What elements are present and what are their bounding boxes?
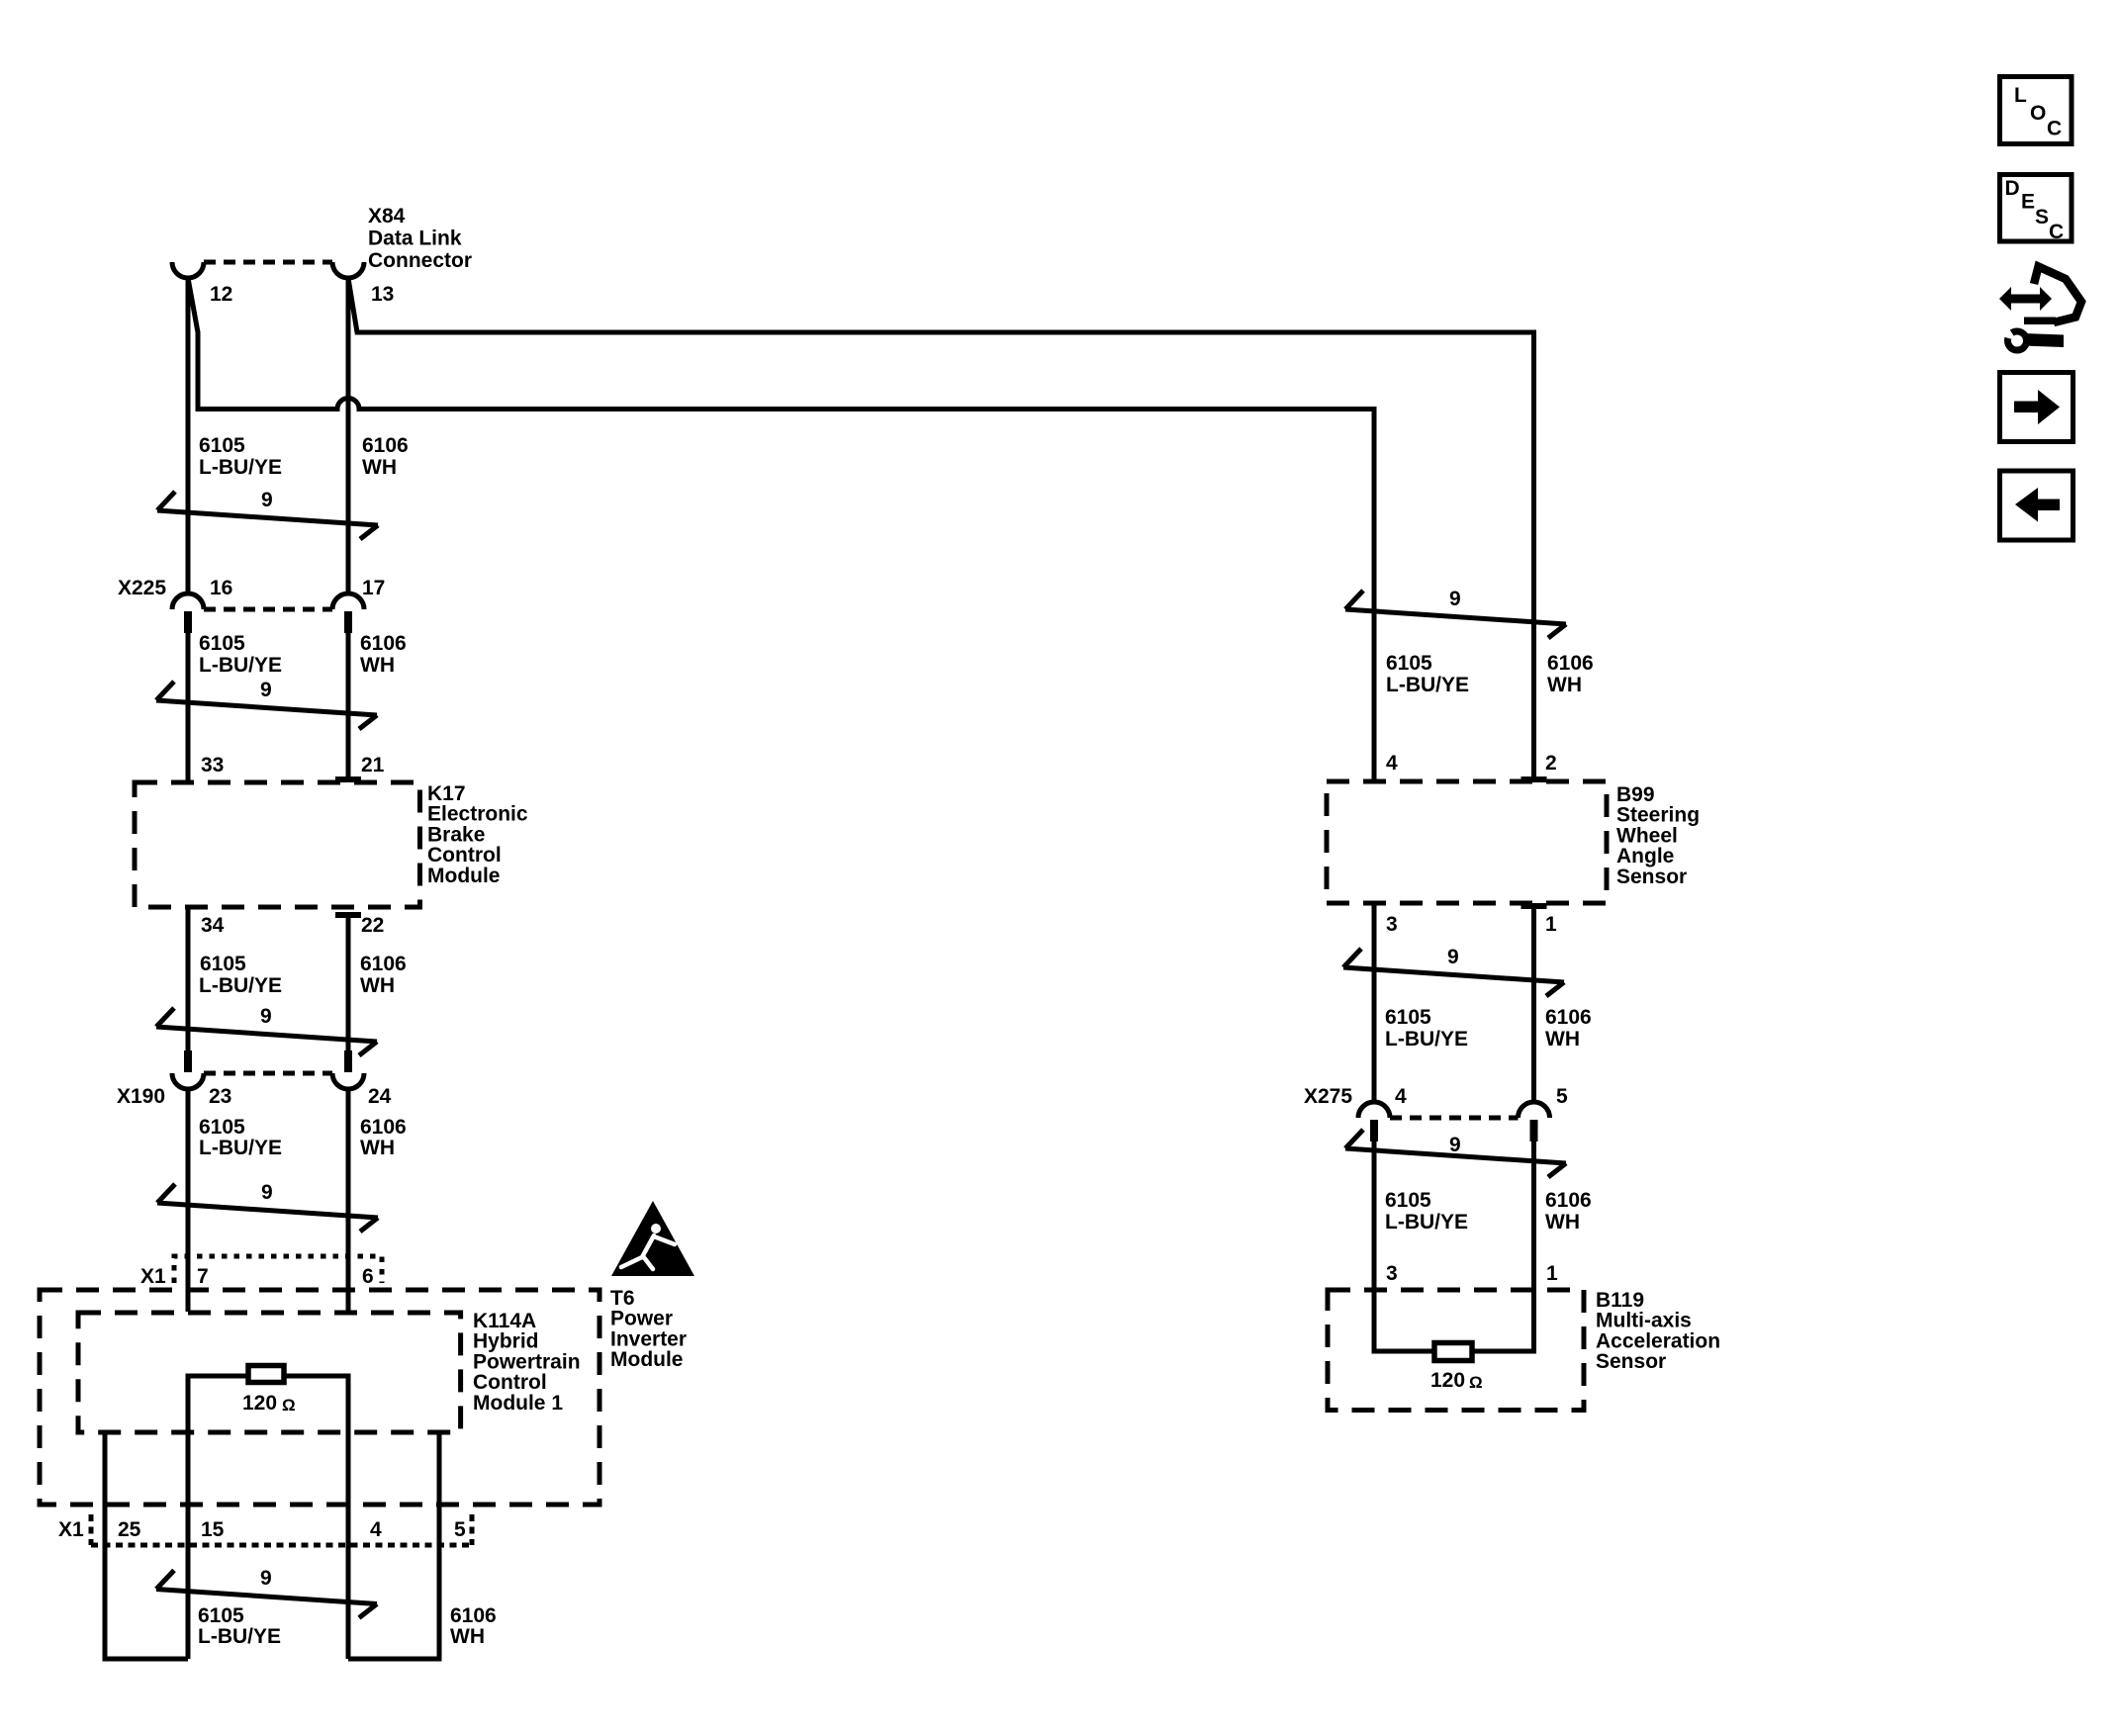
wire 6105 B99 pin 3 to X275 <box>1372 903 1377 1104</box>
wire K114A pin 15 and resistor left lead <box>188 1376 247 1659</box>
svg-text:6105: 6105 <box>1386 652 1432 675</box>
svg-text:Sensor: Sensor <box>1616 866 1687 888</box>
wire 6106 K17 pin 22 to X190 <box>346 915 351 1051</box>
svg-text:Data Link: Data Link <box>368 227 462 249</box>
svg-text:12: 12 <box>210 283 232 306</box>
svg-text:5: 5 <box>1556 1085 1568 1108</box>
connector X84 pin 13 socket <box>332 262 364 278</box>
warning triangle icon <box>611 1201 694 1276</box>
svg-text:Multi-axis: Multi-axis <box>1596 1310 1692 1332</box>
svg-text:6106: 6106 <box>360 953 407 975</box>
svg-text:T6: T6 <box>610 1287 635 1310</box>
svg-text:16: 16 <box>210 577 232 599</box>
connector X190 pin 24 <box>332 1051 364 1089</box>
svg-text:C: C <box>2047 118 2062 140</box>
svg-text:K114A: K114A <box>473 1310 536 1332</box>
svg-text:15: 15 <box>201 1518 225 1541</box>
svg-text:9: 9 <box>1447 946 1459 968</box>
wire label 6105 L-BU/YE (to B99) <box>1386 652 1469 696</box>
wire label 6106 WH (X84-X225) <box>362 434 409 479</box>
wire K114A pin 4 and resistor right lead <box>285 1376 348 1659</box>
svg-text:24: 24 <box>368 1085 392 1108</box>
wire label 6105 L-BU/YE (X190-X1) <box>199 1116 282 1159</box>
wire 6105 K17 pin 34 to X190 <box>186 907 191 1051</box>
module B119 box <box>1328 1290 1584 1411</box>
svg-text:L-BU/YE: L-BU/YE <box>198 1625 281 1648</box>
svg-text:Acceleration: Acceleration <box>1596 1329 1720 1352</box>
wire label 6106 WH (B99-X275) <box>1545 1006 1592 1051</box>
twisted pair marker (X225 to K17) <box>156 679 377 729</box>
svg-text:7: 7 <box>197 1265 209 1288</box>
wire label 6106 WH (X225-K17) <box>360 632 407 677</box>
label K17 Electronic Brake Control Module <box>427 782 528 887</box>
svg-text:6106: 6106 <box>1547 652 1594 675</box>
svg-text:L-BU/YE: L-BU/YE <box>1385 1211 1468 1233</box>
svg-text:6105: 6105 <box>199 434 245 457</box>
svg-text:4: 4 <box>1386 752 1398 775</box>
svg-text:Angle: Angle <box>1616 845 1674 868</box>
svg-text:Connector: Connector <box>368 249 472 272</box>
connector X1 (lower) left stub <box>89 1514 94 1545</box>
wire 6105 X225 to K17 pin 33 <box>186 631 191 782</box>
label B99 Steering Wheel Angle Sensor <box>1616 783 1700 888</box>
svg-text:21: 21 <box>361 754 385 777</box>
wire label 6105 L-BU/YE (X84-X225) <box>199 434 282 479</box>
svg-text:6105: 6105 <box>198 1604 244 1627</box>
svg-text:6105: 6105 <box>200 953 246 975</box>
svg-text:WH: WH <box>360 974 395 997</box>
svg-text:6105: 6105 <box>1385 1006 1431 1029</box>
label 120 ohm (B119) <box>1430 1369 1483 1392</box>
svg-text:6105: 6105 <box>199 632 245 655</box>
wire label 6106 WH (X190-X1) <box>360 1116 407 1159</box>
forward arrow button <box>2000 373 2073 442</box>
svg-text:S: S <box>2035 206 2049 228</box>
svg-text:B99: B99 <box>1616 783 1655 806</box>
svg-text:WH: WH <box>362 456 397 479</box>
wire label 6105 L-BU/YE (B99-X275) <box>1385 1006 1468 1051</box>
wire 6106 X275 to B119 pin 1 <box>1472 1140 1534 1351</box>
svg-text:6: 6 <box>362 1265 374 1288</box>
svg-text:Ω: Ω <box>282 1396 296 1415</box>
twisted pair marker (K17 to X190) <box>156 1005 377 1055</box>
svg-text:X275: X275 <box>1304 1085 1352 1108</box>
twisted pair marker (top to B99) <box>1345 588 1566 638</box>
wire label 6106 WH (X275-B119) <box>1545 1189 1592 1233</box>
svg-text:L-BU/YE: L-BU/YE <box>199 654 282 677</box>
label B119 Multi-axis Acceleration Sensor <box>1596 1289 1720 1373</box>
svg-text:Power: Power <box>610 1308 673 1330</box>
svg-text:WH: WH <box>360 1137 395 1159</box>
svg-text:Module 1: Module 1 <box>473 1392 563 1415</box>
module K114A box <box>78 1313 461 1432</box>
svg-text:O: O <box>2030 102 2046 125</box>
label K114A Hybrid Powertrain Control Module 1 <box>473 1310 581 1415</box>
connector X1 (lower) dotted line <box>91 1543 472 1548</box>
connector X275 pin 5 <box>1519 1102 1550 1142</box>
wire 6105 X275 to B119 pin 3 <box>1374 1140 1434 1351</box>
DESC button <box>2000 175 2073 244</box>
svg-text:Brake: Brake <box>427 823 485 846</box>
svg-text:120: 120 <box>1430 1369 1465 1392</box>
wire 6106 X225 to K17 pin 21 <box>346 631 351 777</box>
LOC button <box>2000 77 2073 144</box>
svg-text:4: 4 <box>1395 1085 1407 1108</box>
svg-text:6106: 6106 <box>362 434 409 457</box>
wire 6105 branch from pin 12 to B99 pin 4 (hop over 6106) <box>188 278 1374 782</box>
wire K114A pin 25 loop <box>105 1434 188 1659</box>
wire label 6106 WH (bottom) <box>450 1604 497 1648</box>
svg-text:9: 9 <box>260 679 272 701</box>
svg-text:X1: X1 <box>58 1518 84 1541</box>
svg-text:Hybrid: Hybrid <box>473 1330 539 1353</box>
K17 pin 22 terminal bar <box>335 912 361 918</box>
svg-text:9: 9 <box>260 1567 272 1590</box>
svg-text:6106: 6106 <box>1545 1189 1592 1212</box>
svg-text:WH: WH <box>1547 674 1582 696</box>
svg-text:Control: Control <box>473 1371 547 1394</box>
svg-text:1: 1 <box>1546 1262 1558 1285</box>
connector X1 (upper) dotted bracket <box>174 1256 382 1283</box>
svg-text:23: 23 <box>209 1085 231 1108</box>
connector X275 dashed line <box>1390 1116 1519 1121</box>
svg-text:6106: 6106 <box>450 1604 497 1627</box>
svg-text:4: 4 <box>370 1518 382 1541</box>
svg-text:X1: X1 <box>140 1265 166 1288</box>
wire 6105 X190 to K114A pin 7 <box>186 1087 191 1312</box>
svg-text:E: E <box>2021 191 2035 214</box>
svg-text:1: 1 <box>1545 913 1557 936</box>
svg-text:9: 9 <box>1449 1134 1461 1156</box>
svg-text:L-BU/YE: L-BU/YE <box>1385 1028 1468 1051</box>
schematic/wrench icon wire outline <box>2034 267 2081 323</box>
wire 6106 B99 pin 1 to X275 <box>1531 906 1536 1104</box>
module T6 Power Inverter Module box <box>40 1290 599 1505</box>
wire K114A pin 5 loop <box>348 1434 439 1659</box>
svg-text:9: 9 <box>261 1181 273 1204</box>
svg-text:Electronic: Electronic <box>427 803 528 826</box>
svg-text:13: 13 <box>371 283 394 306</box>
svg-text:2: 2 <box>1545 752 1557 775</box>
svg-text:Control: Control <box>427 844 502 867</box>
wire 6106 X84 pin 13 down to X225 <box>346 276 351 595</box>
svg-text:5: 5 <box>454 1518 466 1541</box>
svg-text:X84: X84 <box>368 205 406 228</box>
svg-text:9: 9 <box>1449 588 1461 610</box>
svg-text:Inverter: Inverter <box>610 1327 687 1350</box>
svg-text:WH: WH <box>360 654 395 677</box>
twisted pair marker (X275 to B119) <box>1345 1130 1566 1177</box>
svg-text:WH: WH <box>1545 1028 1580 1051</box>
connector X225 pin 17 <box>332 594 364 633</box>
svg-text:17: 17 <box>362 577 385 599</box>
svg-text:6106: 6106 <box>360 632 407 655</box>
svg-text:B119: B119 <box>1596 1289 1644 1312</box>
connector X225 dashed line <box>204 607 332 612</box>
connector X84 pin 12 socket <box>172 262 204 278</box>
wire label 6105 L-BU/YE (X275-B119) <box>1385 1189 1468 1233</box>
B99 pin 1 terminal bar <box>1521 903 1547 909</box>
svg-text:K17: K17 <box>427 782 466 805</box>
svg-text:L-BU/YE: L-BU/YE <box>199 1137 282 1159</box>
svg-text:6106: 6106 <box>1545 1006 1592 1029</box>
svg-text:33: 33 <box>201 754 224 777</box>
svg-text:L-BU/YE: L-BU/YE <box>199 974 282 997</box>
wire label 6106 WH (K17-X190) <box>360 953 407 997</box>
svg-text:Ω: Ω <box>1469 1373 1483 1392</box>
wire label 6105 L-BU/YE (K17-X190) <box>199 953 282 997</box>
svg-text:Powertrain: Powertrain <box>473 1350 581 1373</box>
schematic/wrench icon bottom bar <box>2024 318 2056 325</box>
svg-text:34: 34 <box>201 914 225 937</box>
connector X275 pin 4 <box>1358 1102 1390 1142</box>
svg-text:Module: Module <box>427 865 501 887</box>
label T6 Power Inverter Module <box>610 1287 687 1371</box>
svg-text:6106: 6106 <box>360 1116 407 1139</box>
wire label 6106 WH (to B99) <box>1547 652 1594 696</box>
resistor 120 ohm (B119) body <box>1434 1343 1472 1361</box>
twisted pair marker (B99 to X275) <box>1343 946 1564 996</box>
svg-text:Sensor: Sensor <box>1596 1350 1666 1373</box>
module K17 box <box>135 782 420 907</box>
module B99 box <box>1327 781 1607 903</box>
wire label 6105 L-BU/YE (X225-K17) <box>199 632 282 677</box>
svg-text:X225: X225 <box>118 577 166 599</box>
svg-text:22: 22 <box>361 914 384 937</box>
svg-text:WH: WH <box>450 1625 485 1648</box>
schematic/wrench icon wrench <box>1997 323 2065 351</box>
svg-text:WH: WH <box>1545 1211 1580 1233</box>
connector X84 dashed line <box>204 260 332 265</box>
svg-text:C: C <box>2049 221 2064 243</box>
svg-text:Module: Module <box>610 1348 684 1371</box>
K17 pin 21 terminal bar <box>335 777 361 782</box>
svg-text:120: 120 <box>242 1392 277 1415</box>
svg-text:6105: 6105 <box>199 1116 245 1139</box>
svg-text:D: D <box>2005 177 2020 200</box>
B99 pin 2 terminal bar <box>1521 777 1547 782</box>
twisted pair marker (bottom loop) <box>156 1567 377 1618</box>
twisted pair marker (X190 to X1) <box>157 1181 378 1232</box>
wire 6106 X190 to K114A pin 6 <box>346 1087 351 1312</box>
back arrow button <box>2000 471 2073 540</box>
resistor 120 ohm (K114A) body <box>248 1366 284 1383</box>
svg-text:L-BU/YE: L-BU/YE <box>1386 674 1469 696</box>
wire label 6105 L-BU/YE (bottom) <box>198 1604 281 1648</box>
svg-text:L: L <box>2014 84 2027 107</box>
wire 6105 X84 pin 12 down to X225 <box>186 276 191 595</box>
svg-text:3: 3 <box>1386 1262 1398 1285</box>
svg-text:6105: 6105 <box>1385 1189 1431 1212</box>
label X84 Data Link Connector <box>368 205 472 272</box>
schematic/wrench icon double arrow <box>1999 287 2052 311</box>
svg-text:9: 9 <box>261 489 273 511</box>
connector X1 (lower) right stub <box>470 1514 475 1545</box>
connector X190 pin 23 <box>172 1051 204 1089</box>
svg-text:Steering: Steering <box>1616 804 1700 827</box>
svg-text:9: 9 <box>260 1005 272 1028</box>
svg-text:X190: X190 <box>117 1085 165 1108</box>
label 120 ohm (K114A) <box>242 1392 296 1415</box>
svg-text:L-BU/YE: L-BU/YE <box>199 456 282 479</box>
wire 6106 branch from pin 13 to B99 pin 2 <box>348 278 1534 777</box>
svg-text:Wheel: Wheel <box>1616 824 1678 847</box>
svg-text:25: 25 <box>118 1518 141 1541</box>
twisted pair marker (X84 to X225) <box>157 489 378 539</box>
connector X225 pin 16 <box>172 594 204 633</box>
svg-text:3: 3 <box>1386 913 1398 936</box>
connector X190 dashed line <box>204 1071 332 1076</box>
